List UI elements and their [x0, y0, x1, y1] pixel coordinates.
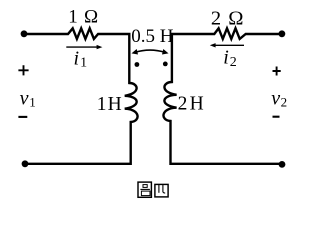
svg-text:1H: 1H — [97, 94, 122, 115]
svg-text:2 Ω: 2 Ω — [211, 7, 245, 29]
svg-text:2H: 2H — [178, 93, 204, 114]
svg-text:0.5 H: 0.5 H — [131, 26, 174, 47]
svg-text:1 Ω: 1 Ω — [68, 7, 99, 28]
